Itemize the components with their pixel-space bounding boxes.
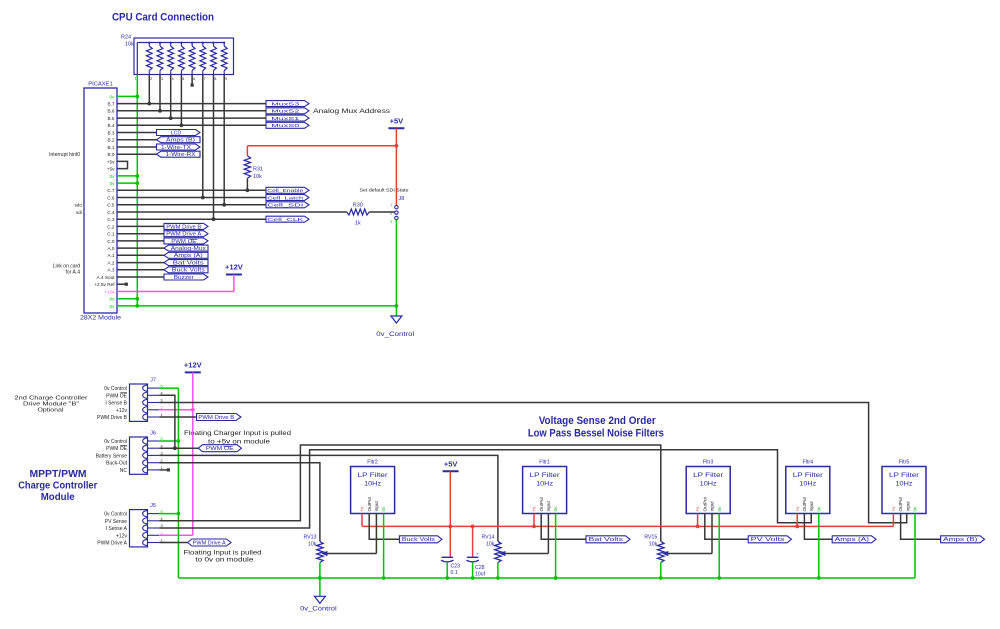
svg-text:Floating Charger Input is pull: Floating Charger Input is pulled (184, 431, 291, 437)
svg-text:OutPut: OutPut (802, 496, 807, 511)
wire red to R31 (247, 145, 396, 147)
svg-text:LP Filter: LP Filter (889, 472, 919, 479)
wire filter 0v pin to green bus (383, 514, 385, 579)
svg-text:1: 1 (135, 77, 137, 81)
svg-text:Bat Volts: Bat Volts (173, 261, 205, 267)
svg-text:0v: 0v (110, 304, 116, 309)
connector J7 (130, 384, 148, 421)
svg-text:Cell_CLK: Cell_CLK (267, 217, 304, 223)
junction red bus (696, 525, 700, 529)
svg-text:C23: C23 (451, 564, 461, 570)
wire row PWM OE (117, 240, 164, 242)
wire row PWM Drive B (117, 225, 164, 227)
net flag Cell_Latch (266, 195, 309, 201)
svg-text:OutPut: OutPut (702, 496, 707, 511)
svg-text:A.3: A.3 (107, 268, 114, 273)
svg-text:OutPut: OutPut (539, 496, 544, 511)
svg-text:Voltage Sense 2nd Order: Voltage Sense 2nd Order (539, 415, 657, 427)
svg-text:0v: 0v (110, 174, 116, 179)
svg-text:Fltr5: Fltr5 (899, 459, 910, 465)
svg-text:Buck Volts: Buck Volts (172, 268, 206, 274)
junction 0v (135, 95, 139, 99)
junction (180, 123, 184, 127)
svg-text:Buck Volts: Buck Volts (402, 537, 436, 543)
junction (169, 116, 173, 120)
LP filter module Fltr4 (786, 467, 830, 514)
net flag Amps (A) (804, 514, 832, 540)
wire R24 pin8 drop to C.3 (213, 75, 215, 220)
power symbol +5V (top) (388, 127, 404, 129)
net flag Analog-Mux (164, 245, 208, 251)
LP filter module Fltr5 (882, 467, 926, 514)
wire J7 pin4 PWM OE down to J6 pin4 (159, 395, 175, 448)
svg-text:Amps (A): Amps (A) (835, 537, 870, 543)
wire +12v magenta (117, 291, 234, 293)
svg-text:OutPut: OutPut (367, 496, 372, 511)
wire red +5V bus (362, 525, 893, 527)
junction green bus (717, 576, 721, 580)
svg-text:Buck-Out: Buck-Out (106, 461, 127, 467)
net flag LCD (157, 130, 201, 136)
wire R24 pin7 drop to C.6 (202, 75, 204, 198)
capacitor C23 0.1 (449, 526, 451, 556)
wire B.1 row (117, 146, 157, 148)
svg-text:+v: +v (891, 506, 896, 512)
svg-text:3: 3 (390, 220, 392, 224)
svg-text:PV Volts: PV Volts (751, 537, 785, 543)
svg-text:B.3: B.3 (107, 130, 114, 135)
net flag Bat Volts (164, 260, 208, 266)
svg-text:R31: R31 (253, 167, 263, 173)
svg-text:+12V: +12V (184, 361, 202, 370)
wire row Amps (A) (117, 254, 164, 256)
svg-text:C.4: C.4 (107, 210, 115, 215)
svg-text:Floating Input is pulled: Floating Input is pulled (184, 551, 262, 557)
svg-text:10k: 10k (486, 542, 495, 548)
junction PWM OE net (173, 446, 177, 450)
svg-text:B.6: B.6 (107, 109, 114, 114)
net flag PV Volts (705, 514, 748, 540)
svg-text:Drive Module "B": Drive Module "B" (23, 402, 79, 408)
svg-text:1: 1 (390, 203, 392, 207)
wire J6 pin4 to PWM OE flag (159, 447, 198, 449)
svg-text:PV Sense: PV Sense (105, 519, 127, 525)
svg-text:J6: J6 (150, 431, 156, 437)
junction (158, 109, 162, 113)
svg-text:Set default SDI State: Set default SDI State (360, 187, 410, 192)
svg-text:0v: 0v (110, 94, 116, 99)
junction 0v (135, 297, 139, 301)
svg-text:3: 3 (161, 77, 163, 81)
wire filter 0v pin to green bus (818, 514, 820, 579)
svg-text:C.0: C.0 (107, 239, 115, 244)
svg-text:0v: 0v (913, 506, 918, 512)
wire R24 pin3 drop (159, 75, 161, 111)
net flag Cell_CLK (266, 216, 309, 222)
svg-text:+v: +v (532, 506, 537, 512)
wire J5 pin3 I Sense A to Fltr4 input (159, 450, 811, 528)
svg-text:28X2 Module: 28X2 Module (80, 315, 122, 321)
wire +v pin drop (361, 514, 363, 527)
svg-text:MuxS3: MuxS3 (271, 102, 300, 108)
net flag Buck Volts (369, 514, 399, 540)
wire 0v pin row 0 (117, 95, 137, 97)
svg-text:PWM OE: PWM OE (106, 393, 127, 399)
svg-text:+5V: +5V (390, 117, 404, 126)
svg-text:0v Control: 0v Control (104, 512, 127, 518)
svg-text:1-Wire-RX: 1-Wire-RX (166, 152, 197, 158)
LP filter module Fltr3 (686, 467, 730, 514)
connector J6 (130, 437, 148, 474)
svg-text:+5V: +5V (444, 460, 458, 469)
net flag PWM Drive B (module) (197, 414, 242, 421)
wire RV14 wiper to Fltr1 input (504, 553, 548, 555)
wire B.2 row (117, 139, 157, 141)
svg-text:A.0: A.0 (107, 246, 114, 251)
svg-text:0v_Control: 0v_Control (300, 607, 337, 613)
svg-text:A.1: A.1 (107, 253, 114, 258)
svg-text:+12v: +12v (116, 408, 127, 414)
wire R24 pin4 drop (170, 75, 172, 119)
potentiometer RV14 10k (495, 541, 501, 562)
LP filter module Fltr1 (523, 467, 567, 514)
svg-text:C.3: C.3 (107, 217, 115, 222)
wire R24 pin9 drop to C.5 (223, 75, 225, 205)
svg-text:PWM Drive A: PWM Drive A (97, 541, 127, 547)
svg-text:0v: 0v (110, 181, 116, 186)
svg-text:sdo: sdo (74, 203, 82, 208)
svg-text:B.2: B.2 (107, 138, 114, 143)
svg-text:+12v: +12v (116, 533, 127, 539)
wire R24 pin2 drop (148, 75, 150, 104)
wire B.0 row (117, 153, 157, 155)
no-connect R24 pin 6 stub (191, 75, 193, 84)
svg-text:0v: 0v (717, 506, 722, 512)
svg-text:LP Filter: LP Filter (793, 472, 823, 479)
svg-text:Low Pass Bessel Noise Filters: Low Pass Bessel Noise Filters (528, 428, 664, 440)
svg-text:PWM Drive A: PWM Drive A (166, 232, 202, 238)
junction red bus C28 (471, 525, 475, 529)
connector J5 (130, 510, 148, 547)
svg-text:Input: Input (809, 501, 814, 512)
svg-text:sdi: sdi (76, 210, 82, 215)
wire row Buck Volts (117, 269, 164, 271)
svg-text:+5v: +5v (107, 167, 115, 172)
svg-text:B.0: B.0 (107, 152, 114, 157)
net flag Cell_SDI (266, 202, 309, 208)
svg-text:MuxS0: MuxS0 (271, 123, 300, 129)
junction red bus at +5V (448, 525, 452, 529)
svg-text:C.6: C.6 (107, 195, 115, 200)
no-connect on +2.5v Ref pin (117, 283, 125, 285)
junction green bus (817, 576, 821, 580)
wire B.4 row (117, 124, 266, 126)
net flag PWM Drive A (module) (188, 539, 231, 546)
svg-text:2nd Charge Controller: 2nd Charge Controller (15, 395, 88, 401)
svg-text:0v: 0v (816, 506, 821, 512)
svg-text:+: + (476, 552, 479, 557)
net flag PWM Drive B (164, 223, 208, 229)
junction (246, 188, 250, 192)
net flag MuxS0 (266, 122, 309, 128)
wire R24 pin5 drop (180, 75, 182, 126)
junction red bus (795, 525, 799, 529)
wire row Bat Volts (117, 262, 164, 264)
capacitor C28 10uf (electrolytic) (472, 526, 474, 556)
svg-text:C.7: C.7 (107, 188, 115, 193)
svg-text:Cell_Latch: Cell_Latch (267, 195, 304, 201)
svg-text:Input: Input (710, 501, 715, 512)
junction 0v (177, 439, 181, 443)
wire J5 pin5 0v (159, 513, 178, 515)
wire J8 pin3 to ground (395, 220, 397, 306)
wire B.5 row (117, 117, 266, 119)
op-amp/IC PICAXE1 28X2 module body (84, 88, 117, 313)
net flag Buzzer (164, 274, 208, 280)
svg-text:I Sense A: I Sense A (106, 526, 128, 532)
svg-text:A.2: A.2 (107, 261, 114, 266)
svg-text:R30: R30 (353, 203, 363, 209)
svg-text:Cell_Enable: Cell_Enable (267, 188, 303, 194)
net flag Amps (B) (901, 514, 941, 540)
svg-text:LP Filter: LP Filter (693, 472, 723, 479)
wire filter 0v pin to green bus (718, 514, 720, 579)
wire row Cell_CLK (117, 218, 266, 220)
wire: green 0v horizontal to J8 ground (137, 305, 396, 307)
ground 0v_Control (module) (318, 576, 322, 580)
svg-text:MPPT/PWM: MPPT/PWM (30, 469, 87, 480)
svg-text:8: 8 (215, 77, 217, 81)
wire J6 pin2 Buck-Out to RV13 (159, 463, 320, 542)
junction green at J8 ground drop (395, 304, 399, 308)
svg-text:2: 2 (150, 77, 152, 81)
svg-text:+v: +v (795, 506, 800, 512)
wire +v pin drop (796, 514, 798, 527)
svg-text:0v Control: 0v Control (104, 386, 127, 392)
svg-text:I Sense B: I Sense B (105, 401, 127, 407)
svg-text:0v_Control: 0v_Control (376, 332, 414, 338)
wire row Buzzer (117, 276, 164, 278)
net flag PWM OE (164, 238, 208, 244)
wire green 0v control vertical bus (159, 387, 178, 389)
svg-text:Fltr4: Fltr4 (802, 459, 813, 465)
wire J5 pin4 PV Sense to RV15 (159, 445, 661, 541)
svg-text:0v: 0v (381, 506, 386, 512)
wire J7 pin3 I Sense B long net (159, 403, 907, 523)
svg-text:CPU Card Connection: CPU Card Connection (112, 12, 214, 24)
junction C.5 (222, 203, 226, 207)
wire +12v magenta vertical (192, 372, 194, 535)
svg-text:Charge Controller: Charge Controller (18, 481, 97, 492)
junction +5V / R31 feed (395, 144, 399, 148)
svg-text:Input: Input (546, 501, 551, 512)
junction 0v (135, 181, 139, 185)
wire B.7 row (117, 103, 266, 105)
net flag Amps (A) (164, 252, 208, 258)
svg-text:OutPut: OutPut (898, 496, 903, 511)
wire Fltr5 0v pin to green bus end (914, 514, 916, 579)
net flag MuxS3 (266, 101, 309, 107)
svg-text:to 0v on module: to 0v on module (195, 558, 254, 564)
svg-text:+5v: +5v (107, 159, 115, 164)
wire filter 0v pin to green bus (555, 514, 557, 579)
svg-text:Battery Sense: Battery Sense (96, 453, 128, 459)
svg-text:Fltr1: Fltr1 (539, 459, 550, 465)
net flag PWM OE (module) (198, 445, 241, 452)
net flag MuxS1 (266, 115, 309, 121)
wire 0v pin row 12 (117, 182, 137, 184)
svg-text:Amps (A): Amps (A) (174, 253, 203, 259)
svg-text:LP Filter: LP Filter (530, 472, 560, 479)
svg-text:PWM Drive B: PWM Drive B (166, 224, 202, 230)
junction 0v bottom (135, 304, 139, 308)
svg-text:RV13: RV13 (304, 535, 317, 541)
svg-text:Interrupt hint0: Interrupt hint0 (49, 152, 80, 158)
net flag Bat Volts (541, 514, 586, 540)
svg-text:PWM Drive B: PWM Drive B (97, 415, 128, 421)
wire row Cell_Enable (117, 189, 266, 191)
svg-text:C.2: C.2 (107, 224, 115, 229)
svg-text:J5: J5 (150, 503, 156, 509)
svg-text:+12v: +12v (104, 289, 115, 294)
net flag Buck Volts (164, 267, 208, 273)
svg-text:0v: 0v (553, 506, 558, 512)
svg-text:A.4 Sout: A.4 Sout (97, 275, 116, 280)
svg-text:0v: 0v (110, 297, 116, 302)
svg-text:PWM OE: PWM OE (171, 239, 197, 245)
svg-text:0v Control: 0v Control (104, 439, 127, 445)
resistor R31 10k (244, 156, 250, 178)
svg-text:LP Filter: LP Filter (358, 472, 388, 479)
svg-text:Amps (B): Amps (B) (943, 537, 978, 543)
svg-text:10k: 10k (649, 542, 658, 548)
wire B.6 row (117, 110, 266, 112)
junction green bus C28 (471, 576, 475, 580)
potentiometer RV13 10k (317, 541, 323, 562)
wire B.3 row (117, 132, 157, 134)
power symbol +12V (module) (185, 371, 201, 373)
wire RV13 wiper to Fltr2 input (326, 553, 376, 555)
svg-text:NC: NC (120, 468, 128, 474)
junction red bus (532, 525, 536, 529)
ground 0v_Control (top) (391, 316, 402, 323)
net flag Amps (B) (157, 137, 201, 143)
svg-text:10Hz: 10Hz (799, 482, 816, 488)
svg-text:0.1: 0.1 (451, 570, 458, 576)
power symbol +5V (module) (443, 470, 459, 472)
svg-text:10uf: 10uf (475, 572, 486, 578)
svg-text:Optional: Optional (38, 408, 64, 414)
svg-text:7: 7 (204, 77, 206, 81)
svg-text:Fltr2: Fltr2 (367, 459, 378, 465)
wire C.4 sdi row to R30 (117, 211, 347, 213)
svg-text:PWM OE: PWM OE (106, 446, 127, 452)
svg-text:PWM OE: PWM OE (206, 446, 235, 452)
wire: 0v green vertical bus from R24 pin1 down chip left area (136, 75, 138, 306)
svg-text:for A.4: for A.4 (66, 270, 81, 276)
svg-text:MuxS1: MuxS1 (271, 116, 300, 122)
svg-text:Buzzer: Buzzer (174, 275, 194, 281)
svg-text:J7: J7 (150, 378, 156, 384)
junction (147, 102, 151, 106)
wire RV15 wiper to Fltr3 input (667, 553, 712, 555)
potentiometer RV15 10k (658, 541, 664, 562)
svg-text:PWM Drive A: PWM Drive A (193, 540, 227, 546)
wire +5V red vertical (395, 128, 397, 205)
wire 0v pin row 11 (117, 175, 137, 177)
svg-text:+12V: +12V (225, 263, 243, 272)
svg-text:C28: C28 (475, 565, 485, 571)
wire R30 to J8 pin2 (369, 211, 394, 213)
svg-text:Analog-Mux: Analog-Mux (171, 246, 207, 252)
wire J5 pin2 +12v (159, 534, 193, 536)
svg-text:1k: 1k (355, 221, 361, 227)
svg-text:10k: 10k (125, 42, 134, 48)
svg-text:+v: +v (360, 506, 365, 512)
svg-text:B.4: B.4 (107, 123, 114, 128)
svg-text:10k: 10k (308, 542, 317, 548)
svg-text:RV15: RV15 (644, 535, 657, 541)
svg-text:10Hz: 10Hz (536, 482, 553, 488)
svg-text:10Hz: 10Hz (364, 482, 381, 488)
wire +v pin drop (892, 514, 894, 527)
power symbol +12V (chip) (226, 274, 242, 276)
svg-text:6: 6 (193, 77, 195, 81)
wire J7 pin2 +12v (159, 409, 193, 411)
net flag PWM Drive A (164, 231, 208, 237)
svg-text:J8: J8 (399, 196, 405, 202)
wire 0v bottom row (117, 305, 137, 307)
svg-text:+v: +v (695, 506, 700, 512)
wire J6 pin5 0v (159, 440, 178, 442)
LP filter module Fltr2 (351, 467, 395, 514)
junction C.6 (201, 196, 205, 200)
wire: +5v pins tie bracket (117, 161, 128, 168)
net flag Cell_Enable (266, 187, 309, 193)
svg-text:10Hz: 10Hz (896, 482, 913, 488)
no-connect J6 pin1 NC (159, 469, 167, 471)
svg-text:R24: R24 (121, 35, 131, 41)
wire 0v pin row 28 (117, 298, 137, 300)
svg-text:PICAXE1: PICAXE1 (88, 82, 113, 88)
wire +v pin drop (533, 514, 535, 527)
svg-text:C.1: C.1 (107, 232, 115, 237)
wire R31 to Cell_Enable row (246, 178, 248, 190)
svg-text:Input: Input (905, 501, 910, 512)
junction 0v (135, 174, 139, 178)
svg-text:B.7: B.7 (107, 102, 114, 107)
junction green bus (382, 576, 386, 580)
wire row Cell_SDI (117, 204, 266, 206)
svg-text:LCD: LCD (171, 130, 182, 136)
svg-text:B.1: B.1 (107, 145, 114, 150)
svg-text:PWM Drive B: PWM Drive B (198, 415, 235, 421)
wire green 0v bottom bus (178, 577, 915, 579)
svg-text:Cell_SDI: Cell_SDI (267, 203, 303, 209)
wire row Cell_Latch (117, 197, 266, 199)
svg-text:4: 4 (172, 77, 174, 81)
svg-text:C.5: C.5 (107, 203, 115, 208)
junction C.3 (212, 217, 216, 221)
net flag 1-Wire-TX (157, 144, 201, 150)
svg-text:10Hz: 10Hz (700, 482, 717, 488)
svg-text:10k: 10k (253, 174, 262, 180)
wire row PWM Drive A (117, 233, 164, 235)
wire J5 pin1 (159, 542, 188, 544)
svg-text:+2.5v Ref: +2.5v Ref (94, 282, 115, 287)
svg-text:Amps (B): Amps (B) (166, 138, 195, 144)
junction 0v (177, 512, 181, 516)
